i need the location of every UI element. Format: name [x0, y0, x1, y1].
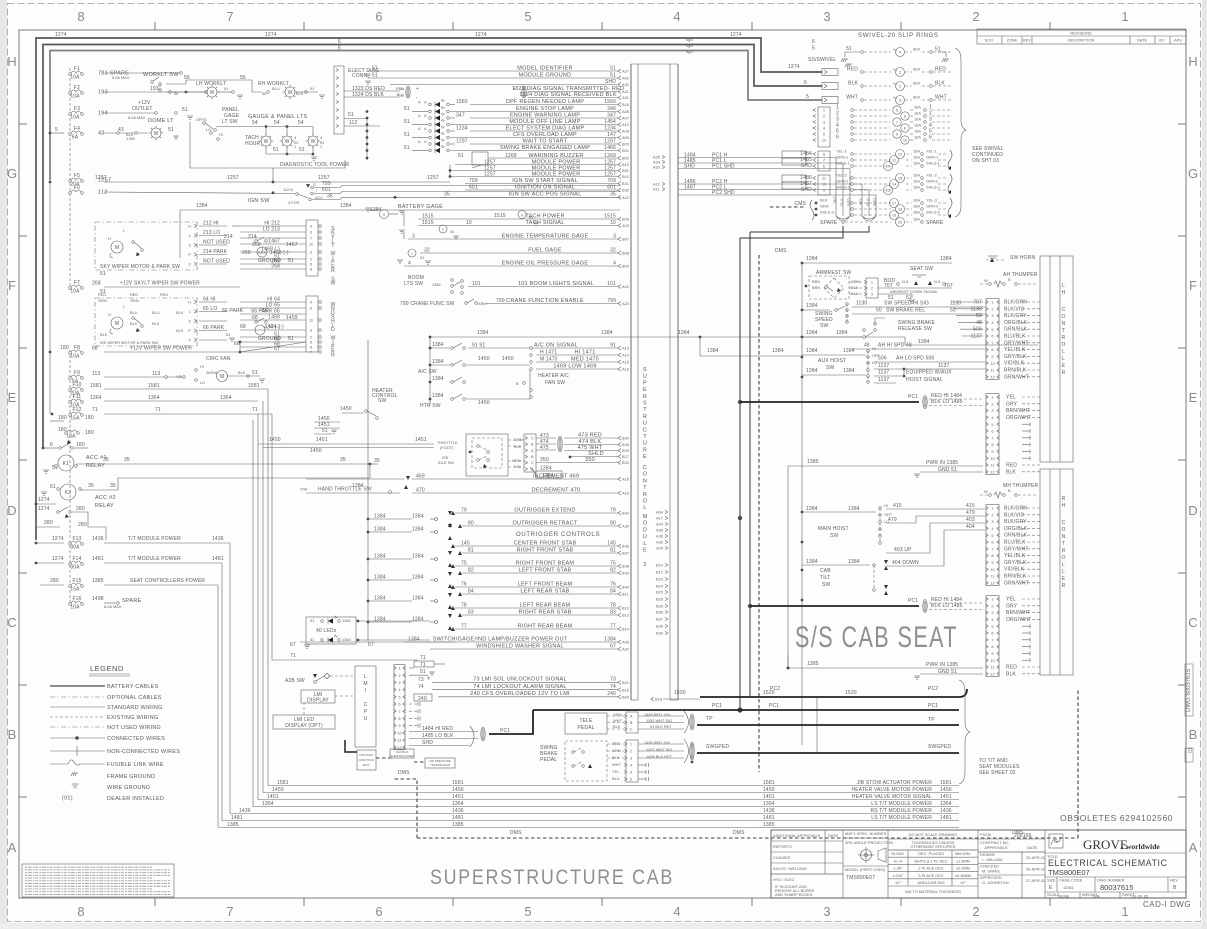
- svg-text:A10: A10: [622, 122, 630, 127]
- svg-text:LO: LO: [200, 380, 205, 385]
- svg-text:A23: A23: [622, 301, 629, 306]
- svg-text:SHD: SHD: [605, 79, 616, 85]
- svg-text:1436: 1436: [212, 536, 224, 542]
- svg-text:SHLD-3: SHLD-3: [820, 210, 834, 215]
- svg-text:BLK: BLK: [612, 755, 620, 760]
- svg-text:1: 1: [294, 144, 296, 149]
- svg-text:F9: F9: [74, 370, 80, 376]
- svg-text:RED: RED: [847, 67, 858, 73]
- svg-text:15A: 15A: [70, 416, 80, 422]
- svg-text:A19: A19: [622, 491, 629, 496]
- svg-text:BLK: BLK: [613, 724, 621, 729]
- svg-text:1560: 1560: [456, 99, 468, 105]
- svg-text:479: 479: [888, 517, 897, 523]
- svg-text:51: 51: [935, 47, 941, 53]
- svg-text:66 PARK: 66 PARK: [222, 308, 244, 314]
- svg-text:E: E: [1049, 885, 1053, 891]
- svg-text:80037615: 80037615: [1100, 883, 1133, 892]
- svg-text:7: 7: [823, 158, 825, 163]
- wire 1450 power row: [263, 792, 959, 794]
- svg-text:BLK LO 1485: BLK LO 1485: [931, 399, 963, 405]
- svg-text:V: V: [521, 213, 524, 218]
- svg-text:51: 51: [404, 145, 410, 151]
- svg-text:BLK: BLK: [176, 328, 184, 333]
- title block approvals col: [1044, 830, 1046, 898]
- svg-text:1560: 1560: [604, 99, 616, 105]
- svg-text:7: 7: [398, 709, 400, 714]
- svg-text:35: 35: [340, 457, 346, 463]
- svg-text:O: O: [1061, 314, 1065, 320]
- svg-text:BLK: BLK: [1006, 469, 1016, 475]
- svg-text:B29: B29: [622, 448, 629, 453]
- svg-text:E: E: [1189, 390, 1198, 405]
- svg-text:MODULE GROUND: MODULE GROUND: [519, 72, 572, 78]
- svg-text:B37: B37: [656, 617, 663, 622]
- svg-text:12: 12: [990, 580, 994, 585]
- svg-text:1130: 1130: [950, 301, 961, 307]
- svg-text:H: H: [1062, 503, 1066, 509]
- svg-text:1130: 1130: [856, 301, 867, 307]
- svg-text:GROUND: GROUND: [258, 336, 281, 342]
- svg-text:6: 6: [804, 80, 807, 86]
- svg-text:A20: A20: [622, 647, 630, 652]
- svg-text:B14: B14: [622, 627, 630, 632]
- svg-text:DATE: DATE: [1027, 845, 1037, 850]
- svg-text:1450: 1450: [340, 406, 352, 412]
- svg-text:DEALER INSTALLED: DEALER INSTALLED: [107, 796, 164, 802]
- svg-text:RS T/T MODULE POWER: RS T/T MODULE POWER: [870, 808, 932, 814]
- svg-text:506: 506: [878, 356, 887, 362]
- svg-text:16A: 16A: [913, 149, 920, 154]
- svg-text:1581: 1581: [277, 780, 289, 786]
- svg-text:G: G: [1054, 839, 1058, 845]
- wire SHD: [390, 84, 618, 86]
- svg-text:1137: 1137: [878, 363, 889, 369]
- swing pedal connector: [626, 740, 638, 782]
- bus 5 top run: [50, 51, 822, 181]
- wire LEFT REAR BEAM: [455, 607, 618, 609]
- svg-text:B23: B23: [656, 577, 663, 582]
- svg-text:BLK: BLK: [820, 198, 828, 203]
- svg-text:RIGHT REAR BEAM: RIGHT REAR BEAM: [518, 623, 573, 629]
- svg-text:STANDARD WIRING: STANDARD WIRING: [107, 705, 163, 711]
- svg-text:CFS OVERLOAD LAMP: CFS OVERLOAD LAMP: [513, 132, 577, 138]
- svg-text:B: B: [1173, 885, 1177, 891]
- svg-text:GRY/WHT: GRY/WHT: [1004, 546, 1029, 552]
- pc1 wires: [678, 157, 836, 159]
- svg-text:SHD: SHD: [422, 740, 433, 746]
- svg-text:FAN SW: FAN SW: [545, 380, 565, 386]
- bus 1274 top run: [36, 38, 822, 540]
- svg-text:CAGE CODE: CAGE CODE: [1059, 878, 1083, 883]
- svg-text:F8: F8: [74, 345, 80, 351]
- svg-text:SWGPED: SWGPED: [928, 744, 951, 750]
- svg-text:SHD: SHD: [684, 164, 695, 170]
- svg-text:I: I: [411, 251, 412, 256]
- svg-text:3: 3: [310, 249, 312, 254]
- wire LEFT REAR STAB: [462, 593, 618, 595]
- wire 1364 power row: [253, 806, 959, 808]
- svg-text:6ga: 6ga: [686, 37, 693, 42]
- svg-text:N.A: N.A: [902, 279, 909, 284]
- svg-text:101: 101: [472, 281, 481, 287]
- svg-text:DESCRIPTION: DESCRIPTION: [1068, 38, 1095, 43]
- svg-text:C: C: [531, 435, 534, 440]
- svg-text:1436: 1436: [763, 808, 775, 814]
- svg-text:HEATER VALVE MOTOR SIGNAL: HEATER VALVE MOTOR SIGNAL: [852, 794, 932, 800]
- svg-text:LT SW: LT SW: [222, 119, 238, 125]
- svg-text:SW BRAKE REL: SW BRAKE REL: [886, 308, 925, 314]
- svg-text:1269: 1269: [604, 153, 616, 159]
- svg-text:51: 51: [404, 119, 410, 125]
- svg-text:1487: 1487: [684, 185, 696, 191]
- svg-text:51: 51: [450, 229, 454, 234]
- svg-text:73: 73: [610, 677, 616, 683]
- svg-text:RED: RED: [396, 86, 404, 91]
- svg-text:6: 6: [375, 904, 382, 919]
- svg-text:51: 51: [610, 72, 616, 78]
- svg-text:48: 48: [864, 343, 870, 349]
- svg-text:LS T/T MODULE POWER: LS T/T MODULE POWER: [871, 801, 932, 807]
- svg-text:1384: 1384: [918, 339, 930, 345]
- svg-text:LEFT REAR BEAM: LEFT REAR BEAM: [520, 602, 571, 608]
- svg-text:OUTRIGGER RETRACT: OUTRIGGER RETRACT: [512, 520, 577, 526]
- svg-text:1364: 1364: [262, 801, 274, 807]
- svg-text:I: I: [365, 688, 367, 694]
- svg-text:M: M: [115, 245, 119, 251]
- svg-text:F13: F13: [72, 536, 81, 542]
- svg-text:8: 8: [991, 644, 993, 649]
- svg-text:A/C ON SIGNAL: A/C ON SIGNAL: [534, 342, 578, 348]
- svg-text:280: 280: [78, 522, 87, 528]
- svg-text:76: 76: [461, 581, 467, 587]
- lh controller connector 2: [986, 394, 999, 475]
- svg-text:1364: 1364: [940, 801, 952, 807]
- svg-text:MM DIM.: MM DIM.: [955, 851, 971, 856]
- svg-text:B: B: [1008, 277, 1011, 282]
- f8 fuse wiper power: [69, 352, 72, 355]
- svg-text:A/C SW: A/C SW: [418, 369, 437, 375]
- svg-text:193: 193: [150, 86, 159, 92]
- svg-text:B: B: [1008, 488, 1011, 493]
- svg-text:F14: F14: [72, 556, 81, 562]
- svg-text:GROUND: GROUND: [258, 258, 281, 264]
- svg-text:2: 2: [991, 306, 993, 311]
- svg-text:8: 8: [991, 442, 993, 447]
- svg-text:B01: B01: [622, 168, 629, 173]
- throttle foot box: [466, 434, 508, 476]
- svg-text:R: R: [1062, 335, 1066, 341]
- svg-text:1450: 1450: [478, 356, 490, 362]
- svg-text:VIO: VIO: [832, 197, 837, 204]
- svg-text:403: 403: [966, 517, 975, 523]
- svg-text:DWG 80037615: DWG 80037615: [1186, 668, 1192, 712]
- svg-text:W: W: [984, 489, 988, 494]
- svg-text:BRN: BRN: [812, 279, 820, 284]
- svg-text:347: 347: [456, 112, 465, 118]
- svg-text:3: 3: [412, 233, 415, 239]
- svg-text:IGN SW: IGN SW: [248, 198, 270, 204]
- svg-text:51: 51: [310, 618, 314, 623]
- svg-text:5: 5: [991, 624, 993, 629]
- svg-text:CAN BUS: CAN BUS: [359, 753, 373, 757]
- svg-text:C: C: [1188, 615, 1197, 630]
- svg-text:51: 51: [252, 370, 258, 376]
- svg-text:H: H: [1188, 54, 1197, 69]
- svg-text:H: H: [1062, 290, 1066, 296]
- svg-text:1481: 1481: [763, 815, 775, 821]
- svg-text:8: 8: [823, 152, 825, 157]
- svg-text:±0.3MM: ±0.3MM: [956, 866, 970, 871]
- f10 fuse 1581: [69, 389, 72, 392]
- svg-text:1384: 1384: [196, 203, 208, 209]
- svg-text:DATE: DATE: [1137, 38, 1147, 43]
- svg-text:56: 56: [262, 91, 266, 96]
- svg-text:GRN-1: GRN-1: [926, 155, 938, 160]
- lmi caps: [409, 703, 418, 705]
- svg-text:WAIT TO START: WAIT TO START: [523, 138, 568, 144]
- svg-text:51: 51: [610, 65, 616, 71]
- lmi led display box: [273, 715, 335, 729]
- svg-text:54: 54: [252, 120, 258, 126]
- svg-text:77: 77: [461, 623, 467, 629]
- svg-text:415: 415: [966, 503, 975, 509]
- svg-text:P: P: [364, 709, 368, 715]
- svg-text:O: O: [1061, 555, 1065, 561]
- wire 240 CFS OVERLOADED 12V TO LMI: [438, 696, 618, 698]
- svg-text:B11: B11: [622, 592, 629, 597]
- svg-text:W: W: [984, 278, 988, 283]
- svg-text:112: 112: [98, 190, 108, 196]
- svg-text:B40: B40: [622, 585, 630, 590]
- svg-text:16A: 16A: [913, 198, 920, 203]
- svg-text:6: 6: [823, 164, 825, 169]
- svg-text:SHLD-3: SHLD-3: [926, 210, 940, 215]
- svg-text:B16: B16: [655, 697, 662, 702]
- wire 1581 power row: [268, 785, 959, 787]
- svg-text:BRN: BRN: [812, 285, 820, 290]
- pc1 riser: [739, 238, 741, 710]
- svg-text:1385: 1385: [807, 661, 819, 667]
- svg-text:8: 8: [77, 904, 84, 919]
- slip ring 4: [861, 51, 864, 54]
- svg-text:470: 470: [416, 487, 425, 493]
- svg-text:RED: RED: [98, 292, 106, 297]
- svg-text:DIAGNOSTIC TOOL POWER: DIAGNOSTIC TOOL POWER: [280, 162, 349, 168]
- svg-text:±2°: ±2°: [895, 880, 901, 885]
- svg-text:3: 3: [871, 291, 873, 296]
- svg-text:ANGULAR DIM: ANGULAR DIM: [917, 880, 944, 885]
- svg-text:601: 601: [469, 184, 478, 190]
- svg-text:ORG/BLK: ORG/BLK: [1004, 320, 1028, 326]
- svg-text:4: 4: [673, 904, 680, 919]
- svg-text:CIRC FAN: CIRC FAN: [206, 356, 231, 362]
- svg-text:A22: A22: [622, 284, 629, 289]
- svg-text:6ga: 6ga: [686, 49, 693, 54]
- svg-text:68: 68: [240, 324, 246, 330]
- svg-text:T: T: [643, 485, 647, 491]
- svg-text:1515: 1515: [494, 213, 506, 219]
- svg-text:SEAT CONTROLLERS POWER: SEAT CONTROLLERS POWER: [130, 578, 205, 584]
- svg-text:A08: A08: [622, 129, 629, 134]
- svg-text:1384: 1384: [412, 554, 424, 560]
- svg-text:80: 80: [468, 520, 474, 526]
- svg-text:LEGEND: LEGEND: [90, 664, 124, 673]
- svg-text:5: 5: [896, 108, 898, 113]
- svg-text:LEFT REAR STAB: LEFT REAR STAB: [520, 588, 569, 594]
- svg-text:LS T/T MODULE POWER: LS T/T MODULE POWER: [871, 815, 932, 821]
- fuse F2: [69, 92, 72, 95]
- svg-text:67: 67: [610, 643, 616, 649]
- svg-text:91: 91: [610, 342, 616, 348]
- svg-text:1384: 1384: [806, 256, 818, 262]
- svg-text:E: E: [643, 548, 647, 554]
- svg-text:113: 113: [152, 371, 160, 377]
- svg-text:1436: 1436: [452, 808, 464, 814]
- svg-text:F15: F15: [72, 578, 81, 584]
- svg-text:G: G: [7, 166, 17, 181]
- svg-text:H 1471: H 1471: [540, 349, 557, 355]
- svg-text:51: 51: [182, 107, 188, 113]
- svg-text:3: 3: [310, 327, 312, 332]
- svg-text:1269: 1269: [505, 153, 517, 159]
- svg-text:1384: 1384: [374, 514, 386, 520]
- svg-text:F: F: [8, 278, 16, 293]
- svg-text:1384: 1384: [432, 376, 444, 382]
- svg-text:5: 5: [398, 694, 400, 699]
- svg-text:L: L: [1062, 562, 1065, 568]
- svg-text:1481: 1481: [231, 815, 243, 821]
- svg-text:RED: RED: [846, 198, 851, 206]
- svg-text:1384: 1384: [843, 348, 855, 354]
- svg-text:B31: B31: [622, 181, 629, 186]
- svg-text:LO: LO: [206, 127, 211, 132]
- svg-text:9: 9: [823, 188, 825, 193]
- svg-text:AH HI SPD 48: AH HI SPD 48: [878, 343, 912, 349]
- svg-text:F10: F10: [72, 382, 81, 388]
- svg-text:L: L: [1062, 283, 1065, 289]
- svg-text:X: X: [188, 262, 191, 267]
- svg-text:1484 HI RED: 1484 HI RED: [422, 726, 453, 732]
- wire 1385 riser: [787, 466, 789, 669]
- svg-text:BLK: BLK: [514, 444, 522, 449]
- svg-text:A11: A11: [653, 187, 660, 192]
- svg-text:SS/SWIVEL: SS/SWIVEL: [808, 57, 836, 63]
- svg-text:A: A: [424, 139, 427, 144]
- svg-text:A35: A35: [656, 528, 663, 533]
- svg-text:DATE: DATE: [828, 833, 838, 838]
- svg-text:O: O: [643, 521, 648, 527]
- svg-text:240 CFS OVERLOADED 12V TO: 240 CFS OVERLOADED 12V TO LMI: [470, 691, 570, 697]
- svg-text:CHASSIS: CHASSIS: [773, 855, 790, 860]
- svg-text:WIRE GROUND: WIRE GROUND: [107, 785, 150, 791]
- svg-text:1581: 1581: [90, 383, 102, 389]
- svg-text:ACC #2: ACC #2: [95, 495, 116, 501]
- svg-text:1581: 1581: [763, 780, 775, 786]
- svg-text:HEATER VALVE MOTOR POWER: HEATER VALVE MOTOR POWER: [852, 787, 933, 793]
- svg-text:1384: 1384: [412, 596, 424, 602]
- svg-text:SW SPEED HI SIG: SW SPEED HI SIG: [884, 301, 929, 307]
- svg-text:MAT'L SPEC. NUMBER: MAT'L SPEC. NUMBER: [845, 831, 887, 836]
- title block: [771, 830, 1186, 898]
- svg-text:51: 51: [404, 106, 410, 112]
- svg-text:OPTIONAL CABLES: OPTIONAL CABLES: [107, 695, 162, 701]
- svg-text:5: 5: [524, 904, 531, 919]
- svg-text:83: 83: [610, 609, 616, 615]
- svg-text:B02: B02: [622, 156, 629, 161]
- svg-text:6: 6: [904, 114, 906, 119]
- rh controller connector 1: [986, 505, 999, 586]
- svg-text:1384: 1384: [340, 203, 352, 209]
- svg-text:7: 7: [991, 637, 993, 642]
- svg-text:SHD: SHD: [801, 163, 812, 169]
- svg-text:B21: B21: [622, 680, 629, 685]
- twisted pair diag: [406, 86, 410, 98]
- svg-text:68: 68: [92, 346, 98, 352]
- svg-text:5: 5: [806, 94, 809, 100]
- svg-text:7: 7: [226, 9, 233, 24]
- svg-text:SKY WIPER MOTOR & PARK SW: SKY WIPER MOTOR & PARK SW: [100, 264, 180, 270]
- svg-text:7: 7: [991, 435, 993, 440]
- svg-text:BATTERY GAGE: BATTERY GAGE: [398, 204, 443, 210]
- svg-text:ARMREST DOWN SIGNAL: ARMREST DOWN SIGNAL: [890, 289, 939, 294]
- svg-text:5: 5: [823, 132, 825, 137]
- svg-text:1384: 1384: [374, 596, 386, 602]
- wire LEFT FRONT BEAM: [455, 586, 618, 588]
- svg-text:B15: B15: [622, 687, 629, 692]
- svg-text:GRY/BLK: GRY/BLK: [1004, 560, 1027, 566]
- svg-text:15: 15: [898, 176, 902, 181]
- svg-text:H: H: [108, 312, 111, 317]
- svg-text:51 BLK RET: 51 BLK RET: [650, 724, 672, 729]
- svg-text:AUX HOIST: AUX HOIST: [818, 358, 846, 364]
- svg-text:RED: RED: [130, 292, 138, 297]
- svg-text:MAIN HOIST: MAIN HOIST: [818, 526, 849, 532]
- svg-text:6A: 6A: [72, 135, 79, 141]
- svg-text:N/A: N/A: [1093, 894, 1100, 899]
- svg-text:JUNCTION: JUNCTION: [358, 758, 374, 762]
- svg-text:PC2: PC2: [928, 686, 938, 692]
- pc1 vertical drop: [835, 158, 837, 217]
- svg-text:7: 7: [310, 235, 312, 240]
- svg-text:GRN-2: GRN-2: [836, 179, 848, 184]
- slew encoder box: [390, 749, 414, 758]
- svg-text:1467: 1467: [268, 238, 280, 244]
- svg-text:T: T: [643, 407, 647, 413]
- svg-text:10: 10: [466, 220, 472, 226]
- svg-text:64 HI: 64 HI: [203, 296, 216, 302]
- svg-text:11: 11: [990, 368, 994, 373]
- svg-text:147: 147: [607, 132, 616, 138]
- svg-text:B27: B27: [622, 454, 629, 459]
- svg-text:±1.5MM: ±1.5MM: [956, 858, 970, 863]
- svg-text:OUTRIGGER CONTROLS: OUTRIGGER CONTROLS: [516, 531, 600, 538]
- svg-text:214: 214: [224, 234, 233, 240]
- svg-text:82: 82: [468, 567, 474, 573]
- svg-text:R: R: [643, 414, 647, 420]
- svg-text:2: 2: [899, 70, 901, 75]
- svg-text:6: 6: [50, 442, 53, 448]
- svg-text:1274: 1274: [475, 32, 487, 38]
- svg-text:112: 112: [349, 120, 357, 126]
- svg-text:268: 268: [242, 250, 251, 256]
- svg-text:DO NOT SCALE DRAWING: DO NOT SCALE DRAWING: [909, 832, 958, 837]
- svg-text:35: 35: [88, 483, 94, 489]
- svg-text:DMS: DMS: [398, 770, 410, 776]
- svg-text:N: N: [643, 478, 647, 484]
- svg-text:ELECTRICAL SCHEMATIC: ELECTRICAL SCHEMATIC: [1048, 858, 1168, 868]
- svg-text:60A: 60A: [913, 81, 920, 86]
